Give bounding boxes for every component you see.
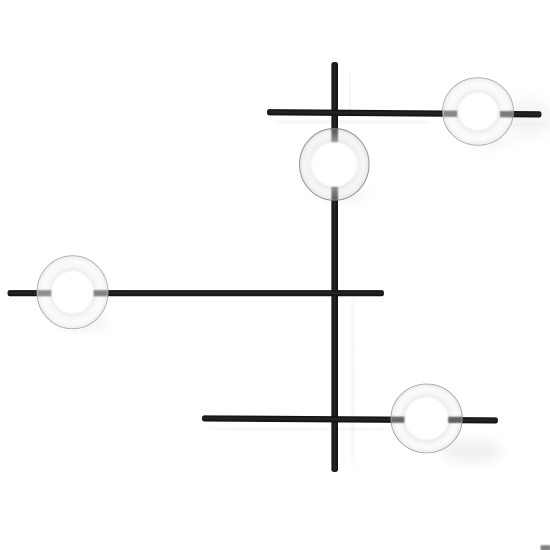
top horizontal bar H1 [267,109,542,117]
soft halo around right end of top bar [502,98,550,138]
shadow below middle bar right of vertical [344,300,382,304]
D4 bar seen through glass right [448,417,462,423]
D1 bar seen through glass left [443,111,457,117]
shadow below-right of bottom disc [442,439,502,463]
D2 bar seen through glass top [331,129,338,143]
D4 bar seen through glass left [391,417,404,423]
shadow below bottom bar [212,428,395,430]
shadow below middle disc [320,186,368,204]
glass disc D2 (on vertical bar) [300,129,370,201]
D3 bar seen through glass left [37,290,51,296]
shadow below middle bar [12,301,200,302]
shadow below top-right disc [464,131,512,149]
glass disc D4 (bottom right) [391,384,462,453]
shadow right of top-right disc [514,124,545,126]
D3 bar seen through glass right [94,290,108,296]
gray corner mark bottom-right [541,545,550,550]
glass disc D1 (top right) [443,78,514,146]
middle horizontal bar H2 [8,290,385,296]
bottom horizontal bar H3 [202,415,498,423]
D2 white light center [308,141,360,188]
shadow right of vertical bar bottom [352,300,354,464]
glass disc D3 (left) [37,256,108,329]
D2 bar seen through glass bottom [331,187,338,201]
vertical bar V1 [331,62,338,472]
D1 bar seen through glass right [500,111,514,117]
shadow below left disc [56,312,108,332]
shadow right of vertical bar top [350,72,351,122]
shadow below top bar [274,121,430,123]
